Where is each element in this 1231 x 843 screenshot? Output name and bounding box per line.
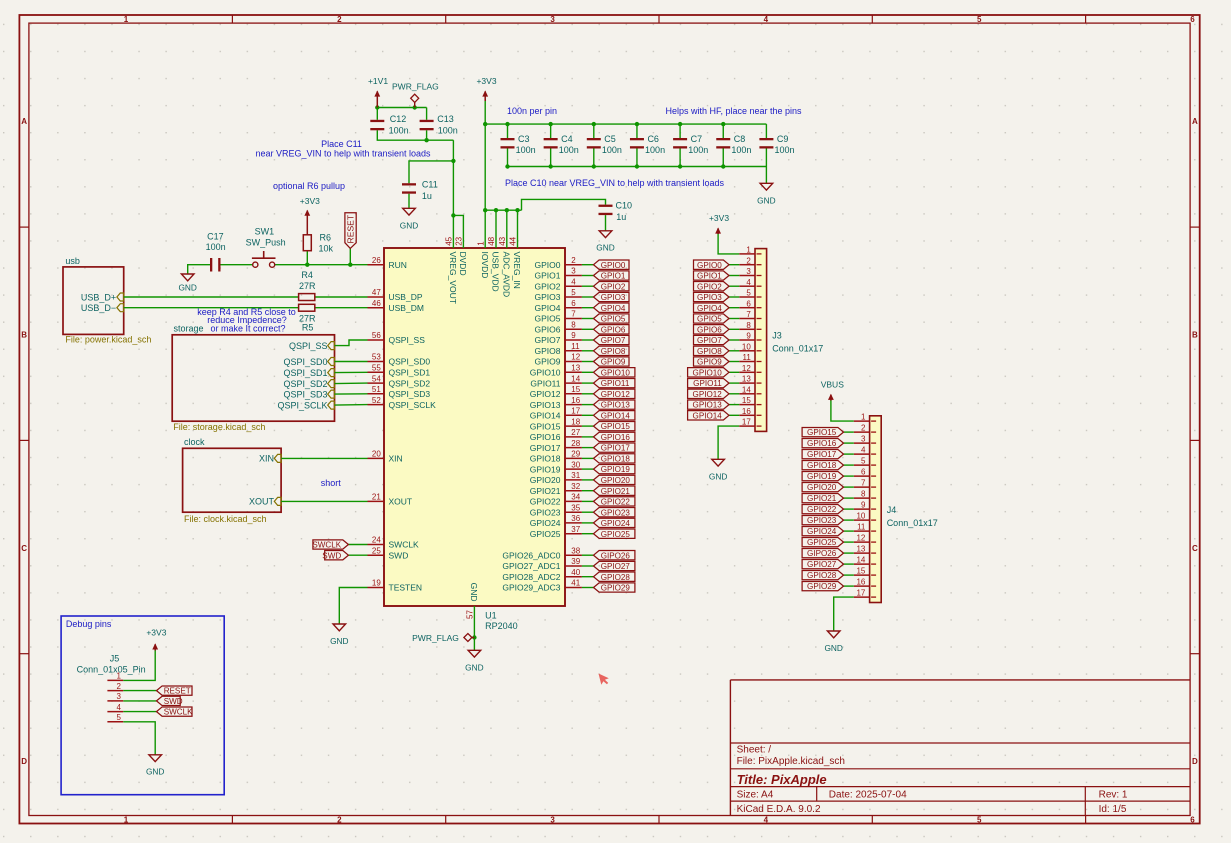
U1 pin 37 (GPIO25) + global label GPIO25 bbox=[530, 525, 635, 539]
global label SWCLK at U1 bbox=[312, 540, 348, 550]
wire +3V3 vertical rail bbox=[484, 99, 486, 210]
ground C17 bbox=[178, 274, 196, 293]
svg-text:RESET: RESET bbox=[164, 687, 191, 696]
svg-text:7: 7 bbox=[571, 310, 576, 319]
svg-text:QSPI_SD1: QSPI_SD1 bbox=[283, 368, 327, 378]
svg-text:QSPI_SD0: QSPI_SD0 bbox=[283, 357, 327, 367]
svg-text:5: 5 bbox=[977, 15, 982, 24]
svg-text:1: 1 bbox=[124, 816, 129, 825]
svg-text:1u: 1u bbox=[616, 212, 626, 222]
wire C10 bottom stub bbox=[605, 215, 607, 231]
wire VREG_VOUT feed bbox=[452, 140, 454, 248]
svg-text:GPIO17: GPIO17 bbox=[601, 444, 631, 453]
svg-text:GPIO13: GPIO13 bbox=[601, 401, 631, 410]
note keep R4 R5 line2 bbox=[207, 315, 287, 325]
ground TESTEN bbox=[330, 624, 348, 646]
svg-text:GPIO18: GPIO18 bbox=[807, 461, 837, 470]
svg-text:GPIO11: GPIO11 bbox=[601, 379, 630, 388]
svg-text:near VREG_VIN to help with tra: near VREG_VIN to help with transient loa… bbox=[255, 149, 431, 159]
svg-text:GPIO8: GPIO8 bbox=[697, 347, 722, 356]
svg-text:File: clock.kicad_sch: File: clock.kicad_sch bbox=[184, 514, 267, 524]
wire decoupling top bus bbox=[485, 123, 766, 125]
svg-text:3: 3 bbox=[550, 15, 555, 24]
wire SW1 to RUN pin bbox=[275, 264, 368, 266]
U1 pin 20 (XIN) bbox=[368, 450, 403, 464]
U1 pin 3 (GPIO1) + global label GPIO1 bbox=[535, 267, 629, 281]
svg-text:7: 7 bbox=[861, 479, 866, 488]
svg-text:32: 32 bbox=[571, 482, 580, 491]
wire +3V3 to J5 pin1 bbox=[123, 650, 155, 680]
U1 pin 13 (GPIO10) + global label GPIO10 bbox=[530, 364, 635, 378]
svg-text:28: 28 bbox=[571, 439, 580, 448]
wire XOUT bbox=[281, 500, 367, 502]
svg-text:6: 6 bbox=[746, 299, 751, 308]
svg-text:J4: J4 bbox=[887, 505, 897, 515]
U1 pin 53 (QSPI_SD0) bbox=[368, 353, 431, 367]
svg-text:GPIO4: GPIO4 bbox=[535, 303, 561, 313]
sheet usb bbox=[63, 256, 151, 344]
note helps with HF bbox=[665, 106, 802, 116]
J3 pin 1 bbox=[739, 246, 755, 255]
capacitor C11 bbox=[402, 180, 438, 201]
sheet storage bbox=[172, 324, 334, 432]
svg-text:GPIO17: GPIO17 bbox=[530, 443, 561, 453]
svg-text:R6: R6 bbox=[320, 233, 332, 243]
J4 pin 16 + global label GPIO29 bbox=[802, 578, 870, 592]
svg-text:GPIO21: GPIO21 bbox=[807, 494, 837, 503]
svg-text:GPIO14: GPIO14 bbox=[601, 411, 631, 420]
svg-text:GPIO9: GPIO9 bbox=[697, 358, 722, 367]
svg-text:usb: usb bbox=[65, 256, 80, 266]
svg-text:46: 46 bbox=[372, 299, 381, 308]
power +3V3 J3 bbox=[709, 213, 729, 234]
svg-text:GPIO20: GPIO20 bbox=[601, 476, 631, 485]
svg-text:GND: GND bbox=[330, 636, 348, 646]
svg-text:14: 14 bbox=[571, 374, 580, 383]
wire USB_D- right bbox=[315, 307, 368, 309]
wire capacitor stubs C3-C9 bbox=[508, 124, 767, 166]
title block kicad text bbox=[737, 804, 821, 815]
svg-text:8: 8 bbox=[746, 321, 751, 330]
svg-text:15: 15 bbox=[571, 385, 580, 394]
power +3V3 debug bbox=[146, 627, 166, 650]
J4 pin 9 + global label GPIO22 bbox=[802, 501, 870, 515]
svg-text:SW1: SW1 bbox=[255, 227, 275, 237]
svg-text:45: 45 bbox=[445, 236, 454, 245]
svg-text:GPIO24: GPIO24 bbox=[530, 518, 561, 528]
U1 pin 2 (GPIO0) + global label GPIO0 bbox=[535, 256, 629, 270]
svg-text:GPIO0: GPIO0 bbox=[601, 261, 626, 270]
svg-text:GPIO5: GPIO5 bbox=[535, 314, 561, 324]
title block bbox=[730, 680, 1190, 816]
wire J5 pin2 to RESET bbox=[123, 690, 156, 692]
svg-text:56: 56 bbox=[372, 331, 381, 340]
svg-text:47: 47 bbox=[372, 288, 381, 297]
svg-text:Conn_01x17: Conn_01x17 bbox=[772, 343, 823, 353]
svg-text:B: B bbox=[21, 331, 27, 340]
wire SWCLK bbox=[348, 544, 367, 546]
svg-text:Rev: 1: Rev: 1 bbox=[1099, 789, 1128, 800]
svg-text:GPIO26_ADC0: GPIO26_ADC0 bbox=[502, 550, 560, 560]
U1 top pin 23 (DVDD) bbox=[455, 236, 469, 275]
svg-text:GIPO26: GIPO26 bbox=[807, 549, 837, 558]
svg-text:+1V1: +1V1 bbox=[368, 76, 388, 86]
title block title text bbox=[737, 772, 827, 787]
wire C13 top stub bbox=[426, 108, 428, 120]
sheet pin QSPI_SD0 bbox=[283, 357, 334, 367]
svg-text:27: 27 bbox=[571, 428, 580, 437]
sheet pin QSPI_SS bbox=[289, 341, 335, 351]
svg-text:QSPI_SCLK: QSPI_SCLK bbox=[277, 400, 327, 410]
svg-text:3: 3 bbox=[550, 816, 555, 825]
J4 pin 10 + global label GPIO23 bbox=[802, 512, 870, 526]
title block size text bbox=[737, 789, 774, 800]
svg-text:41: 41 bbox=[571, 579, 580, 588]
U1 pin 28 (GPIO17) + global label GPIO17 bbox=[530, 439, 635, 453]
svg-text:48: 48 bbox=[487, 236, 496, 245]
U1 pin 52 (QSPI_SCLK) bbox=[368, 396, 437, 410]
svg-text:SWCLK: SWCLK bbox=[389, 540, 420, 550]
svg-text:25: 25 bbox=[372, 546, 381, 555]
svg-text:54: 54 bbox=[372, 374, 381, 383]
wire USB_D+ left bbox=[124, 296, 299, 298]
capacitor C12 bbox=[370, 114, 408, 135]
title block sheet text bbox=[737, 744, 772, 755]
op-amp U1 body (RP2040 IC) bbox=[384, 248, 565, 606]
svg-text:GND: GND bbox=[469, 583, 479, 602]
svg-text:100n: 100n bbox=[688, 145, 708, 155]
svg-text:GND: GND bbox=[146, 766, 164, 776]
svg-text:C4: C4 bbox=[561, 134, 573, 144]
svg-text:GPIO10: GPIO10 bbox=[530, 368, 561, 378]
svg-text:15: 15 bbox=[742, 396, 751, 405]
capacitor C9 bbox=[759, 134, 794, 155]
wire C12 bottom to bus bbox=[377, 130, 453, 140]
U1 pin 54 (QSPI_SD2) bbox=[368, 374, 431, 388]
U1 bottom pin 57 (GND) bbox=[466, 583, 480, 619]
junction dot U1 GND net bbox=[472, 635, 476, 639]
svg-text:GND: GND bbox=[178, 283, 196, 293]
svg-text:31: 31 bbox=[571, 471, 580, 480]
svg-text:37: 37 bbox=[571, 525, 580, 534]
title block file text bbox=[737, 756, 845, 767]
svg-text:3: 3 bbox=[117, 692, 122, 701]
svg-text:SWCLK: SWCLK bbox=[164, 708, 193, 717]
note place C11 line2 bbox=[255, 149, 431, 159]
svg-text:GPIO12: GPIO12 bbox=[693, 390, 723, 399]
global label SWD at U1 bbox=[322, 551, 348, 561]
resistor R5 bbox=[299, 304, 316, 332]
svg-text:6: 6 bbox=[861, 468, 866, 477]
svg-text:VBUS: VBUS bbox=[821, 379, 844, 389]
svg-text:SWD: SWD bbox=[389, 550, 409, 560]
svg-text:QSPI_SD1: QSPI_SD1 bbox=[389, 368, 431, 378]
power +3V3 main bbox=[476, 76, 496, 101]
svg-text:QSPI_SD3: QSPI_SD3 bbox=[283, 389, 327, 399]
U1 top pin 1 (IOVDD) bbox=[476, 241, 490, 279]
U1 pin 35 (GPIO23) + global label GPIO23 bbox=[530, 503, 635, 517]
U1 pin 34 (GPIO22) + global label GPIO22 bbox=[530, 493, 635, 507]
svg-text:21: 21 bbox=[372, 493, 381, 502]
U1 pin 27 (GPIO16) + global label GPIO16 bbox=[530, 428, 635, 442]
svg-text:4: 4 bbox=[861, 446, 866, 455]
U1 pin 38 (GPIO26_ADC0) + global label GIPO26 bbox=[502, 546, 635, 560]
sheet pin QSPI_SCLK bbox=[277, 400, 334, 410]
svg-text:GPIO8: GPIO8 bbox=[535, 346, 561, 356]
svg-text:GPIO2: GPIO2 bbox=[535, 281, 561, 291]
wire TESTEN to GND bbox=[339, 588, 367, 625]
svg-text:Size: A4: Size: A4 bbox=[737, 789, 774, 800]
wire SWD bbox=[348, 554, 367, 556]
resistor R4 bbox=[299, 270, 316, 301]
svg-text:GPIO16: GPIO16 bbox=[807, 439, 837, 448]
J5 pin 4 bbox=[107, 703, 123, 712]
svg-text:B: B bbox=[1192, 331, 1198, 340]
svg-text:GPIO13: GPIO13 bbox=[530, 400, 561, 410]
svg-text:optional R6 pullup: optional R6 pullup bbox=[273, 181, 345, 191]
svg-text:C3: C3 bbox=[518, 134, 530, 144]
wire +1V1 horizontal bbox=[377, 107, 426, 109]
wire J4 pin17 to GND bbox=[834, 597, 854, 631]
svg-text:100n: 100n bbox=[438, 125, 458, 135]
J3 pin 16 + global label GPIO14 bbox=[688, 407, 755, 421]
note 100n per pin bbox=[507, 106, 557, 116]
wire +3V3 to J3 pin1 bbox=[718, 234, 739, 254]
J5 pin 1 bbox=[107, 672, 123, 681]
svg-text:5: 5 bbox=[117, 713, 122, 722]
svg-text:GND: GND bbox=[757, 195, 775, 205]
U1 pin 11 (GPIO8) + global label GPIO8 bbox=[535, 342, 629, 356]
svg-text:11: 11 bbox=[571, 342, 580, 351]
wire C12 top stub bbox=[376, 108, 378, 120]
wire QSPI_SCLK bbox=[335, 404, 368, 407]
svg-text:C6: C6 bbox=[647, 134, 659, 144]
svg-text:C9: C9 bbox=[777, 134, 789, 144]
svg-text:GPIO27: GPIO27 bbox=[601, 562, 631, 571]
svg-text:GND: GND bbox=[824, 643, 842, 653]
svg-text:5: 5 bbox=[861, 457, 866, 466]
ground U1 bbox=[465, 650, 483, 672]
svg-text:QSPI_SD2: QSPI_SD2 bbox=[283, 379, 327, 389]
svg-text:GPIO10: GPIO10 bbox=[601, 368, 631, 377]
J3 pin 11 + global label GPIO9 bbox=[694, 353, 756, 367]
J3 pin 3 + global label GPIO1 bbox=[694, 267, 756, 281]
J3 pin 9 + global label GPIO7 bbox=[694, 332, 756, 346]
svg-text:GPIO6: GPIO6 bbox=[601, 325, 626, 334]
svg-text:Date: 2025-07-04: Date: 2025-07-04 bbox=[829, 789, 907, 800]
ground J3 bbox=[709, 459, 727, 481]
svg-text:GPIO16: GPIO16 bbox=[530, 432, 561, 442]
svg-text:6: 6 bbox=[571, 299, 576, 308]
svg-text:QSPI_SS: QSPI_SS bbox=[389, 335, 426, 345]
svg-text:15: 15 bbox=[856, 567, 865, 576]
wire DVDD branch bbox=[453, 215, 463, 248]
svg-text:3: 3 bbox=[746, 267, 751, 276]
svg-text:+3V3: +3V3 bbox=[300, 196, 320, 206]
svg-text:SWD: SWD bbox=[322, 551, 341, 560]
svg-text:5: 5 bbox=[746, 289, 751, 298]
wire C11 branch bbox=[409, 161, 453, 183]
connector J5 labels bbox=[77, 654, 146, 675]
J4 pin 2 + global label GPIO15 bbox=[802, 424, 870, 438]
svg-text:100n: 100n bbox=[645, 145, 665, 155]
svg-text:R5: R5 bbox=[302, 323, 314, 333]
svg-text:PWR_FLAG: PWR_FLAG bbox=[412, 633, 459, 643]
note place C11 line1 bbox=[321, 139, 362, 149]
wire IC top supply stubs bbox=[485, 210, 517, 248]
svg-text:Place C11: Place C11 bbox=[321, 139, 362, 149]
svg-text:GPIO27: GPIO27 bbox=[807, 560, 837, 569]
svg-text:GPIO25: GPIO25 bbox=[601, 530, 631, 539]
J3 pin 13 + global label GPIO11 bbox=[688, 375, 755, 389]
wire J5 pin5 to GND bbox=[123, 722, 155, 755]
svg-text:GPIO5: GPIO5 bbox=[697, 315, 722, 324]
wire decoupling bottom bus bbox=[508, 166, 767, 168]
svg-text:GPIO4: GPIO4 bbox=[601, 304, 626, 313]
capacitor C17 bbox=[206, 232, 226, 272]
U1 pin 25 (SWD) bbox=[368, 546, 409, 560]
junction dots decoupling bus bbox=[483, 122, 725, 169]
U1 reference text bbox=[485, 611, 497, 621]
svg-text:GPIO19: GPIO19 bbox=[601, 465, 631, 474]
svg-text:DVDD: DVDD bbox=[458, 252, 468, 276]
svg-text:4: 4 bbox=[117, 703, 122, 712]
svg-text:XOUT: XOUT bbox=[389, 497, 413, 507]
svg-text:GPIO25: GPIO25 bbox=[807, 538, 837, 547]
mouse cursor bbox=[599, 674, 609, 685]
note short bbox=[321, 478, 342, 488]
wire RESET label drop bbox=[349, 248, 351, 264]
junction dots +1V1 net bbox=[375, 105, 456, 217]
svg-text:GPIO20: GPIO20 bbox=[530, 475, 561, 485]
svg-text:USB_DM: USB_DM bbox=[389, 303, 424, 313]
svg-text:GPIO2: GPIO2 bbox=[697, 282, 722, 291]
svg-text:10k: 10k bbox=[319, 244, 334, 254]
svg-text:16: 16 bbox=[856, 578, 865, 587]
J3 pin 17 bbox=[739, 418, 755, 427]
svg-text:C11: C11 bbox=[422, 180, 438, 190]
capacitor C8 bbox=[716, 134, 751, 155]
svg-text:53: 53 bbox=[372, 353, 381, 362]
svg-text:C17: C17 bbox=[207, 232, 224, 242]
svg-text:GPIO3: GPIO3 bbox=[601, 293, 626, 302]
title block id text bbox=[1099, 804, 1127, 815]
wire USB_D- left bbox=[124, 307, 299, 309]
svg-text:44: 44 bbox=[509, 236, 518, 245]
svg-text:GPIO22: GPIO22 bbox=[601, 498, 631, 507]
J4 pin 13 + global label GIPO26 bbox=[802, 545, 870, 559]
J5 pin 3 bbox=[107, 692, 123, 701]
svg-text:QSPI_SS: QSPI_SS bbox=[289, 341, 328, 351]
J4 pin 15 + global label GPIO28 bbox=[802, 567, 870, 581]
switch SW1 bbox=[246, 227, 286, 268]
svg-text:GPIO7: GPIO7 bbox=[601, 336, 626, 345]
svg-text:GPIO20: GPIO20 bbox=[807, 483, 837, 492]
svg-text:5: 5 bbox=[977, 816, 982, 825]
svg-text:20: 20 bbox=[372, 450, 381, 459]
sheet pin XIN bbox=[259, 454, 281, 464]
svg-text:13: 13 bbox=[742, 375, 751, 384]
svg-text:SW_Push: SW_Push bbox=[246, 237, 286, 247]
svg-text:17: 17 bbox=[571, 407, 580, 416]
J4 pin 4 + global label GPIO17 bbox=[802, 446, 870, 460]
power +3V3 pullup bbox=[300, 196, 320, 235]
U1 pin 16 (GPIO13) + global label GPIO13 bbox=[530, 396, 635, 410]
capacitor C10 bbox=[599, 201, 633, 222]
svg-text:8: 8 bbox=[571, 321, 576, 330]
svg-text:100n: 100n bbox=[516, 145, 536, 155]
U1 pin 41 (GPIO29_ADC3) + global label GPIO29 bbox=[502, 579, 635, 593]
svg-text:or make It correct?: or make It correct? bbox=[210, 323, 285, 333]
power VBUS bbox=[821, 379, 844, 400]
J5 pin 5 bbox=[107, 713, 123, 722]
svg-text:2: 2 bbox=[337, 15, 342, 24]
U1 top pin 44 (VREG_IN) bbox=[509, 236, 523, 288]
svg-text:1: 1 bbox=[124, 15, 129, 24]
svg-text:GPIO24: GPIO24 bbox=[601, 519, 631, 528]
J4 pin 6 + global label GPIO19 bbox=[802, 468, 870, 482]
J3 pin 5 + global label GPIO3 bbox=[694, 289, 756, 303]
svg-text:12: 12 bbox=[571, 353, 580, 362]
svg-text:GPIO4: GPIO4 bbox=[697, 304, 722, 313]
svg-text:18: 18 bbox=[571, 417, 580, 426]
svg-text:GPIO15: GPIO15 bbox=[530, 421, 561, 431]
svg-text:7: 7 bbox=[746, 310, 751, 319]
svg-text:40: 40 bbox=[571, 568, 580, 577]
wire QSPI_SD2 bbox=[335, 382, 368, 385]
J3 pin 14 + global label GPIO12 bbox=[688, 385, 755, 399]
svg-text:23: 23 bbox=[455, 236, 464, 245]
svg-text:5: 5 bbox=[571, 288, 576, 297]
svg-text:clock: clock bbox=[184, 437, 205, 447]
svg-text:RP2040: RP2040 bbox=[485, 621, 518, 631]
svg-text:C5: C5 bbox=[604, 134, 616, 144]
svg-text:100n: 100n bbox=[602, 145, 622, 155]
U1 value text bbox=[485, 621, 518, 631]
svg-text:GPIO5: GPIO5 bbox=[601, 315, 626, 324]
svg-text:GPIO11: GPIO11 bbox=[530, 378, 560, 388]
capacitor C13 bbox=[420, 114, 458, 135]
U1 pin 8 (GPIO6) + global label GPIO6 bbox=[535, 321, 629, 335]
svg-text:GPIO21: GPIO21 bbox=[530, 486, 561, 496]
resistor R6 bbox=[303, 233, 333, 254]
svg-text:9: 9 bbox=[861, 501, 866, 510]
svg-text:GPIO7: GPIO7 bbox=[697, 336, 722, 345]
svg-text:16: 16 bbox=[742, 407, 751, 416]
svg-text:U1: U1 bbox=[485, 611, 497, 621]
svg-text:12: 12 bbox=[856, 534, 865, 543]
sheet pin QSPI_SD1 bbox=[283, 368, 334, 378]
svg-text:39: 39 bbox=[571, 557, 580, 566]
U1 pin 40 (GPIO28_ADC2) + global label GPIO28 bbox=[502, 568, 635, 582]
svg-text:GPIO16: GPIO16 bbox=[601, 433, 631, 442]
junction dots RUN net bbox=[305, 263, 352, 267]
svg-text:3: 3 bbox=[861, 435, 866, 444]
wire U1 GND pin to GND bbox=[473, 606, 475, 650]
svg-text:GPIO3: GPIO3 bbox=[697, 293, 722, 302]
J3 pin 4 + global label GPIO2 bbox=[694, 278, 756, 292]
sheet pin QSPI_SD3 bbox=[283, 389, 334, 399]
svg-text:Conn_01x17: Conn_01x17 bbox=[887, 518, 938, 528]
J4 pin 12 + global label GPIO25 bbox=[802, 534, 870, 548]
global label SWCLK at J5 bbox=[157, 707, 194, 717]
svg-text:GPIO0: GPIO0 bbox=[697, 261, 722, 270]
capacitor C4 bbox=[544, 134, 579, 155]
svg-text:1: 1 bbox=[117, 672, 122, 681]
svg-text:17: 17 bbox=[742, 418, 751, 427]
svg-text:2: 2 bbox=[861, 424, 866, 433]
svg-text:19: 19 bbox=[372, 579, 381, 588]
